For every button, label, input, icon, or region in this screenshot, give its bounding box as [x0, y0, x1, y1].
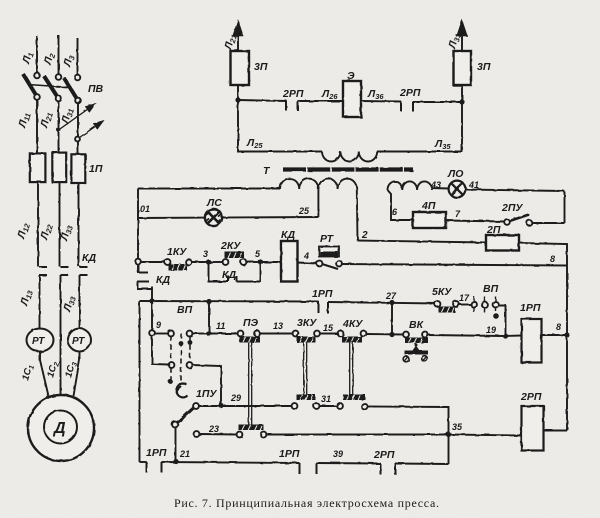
svg-text:4КУ: 4КУ: [342, 318, 363, 330]
svg-text:1П: 1П: [89, 163, 103, 175]
pushbutton ПЭ upper pole: [238, 331, 260, 343]
switch ПВ terminal circle phase 2: [56, 74, 62, 80]
fuse 3П right: [454, 51, 472, 85]
lamp ЛС: [205, 209, 222, 226]
junction dot node 35: [446, 432, 451, 437]
svg-text:2ПУ: 2ПУ: [501, 202, 523, 214]
wire row 3 middle: [328, 302, 437, 304]
wire 2 row to fuse 2П: [358, 241, 487, 243]
switch ПВ terminal circle phase 3: [75, 75, 81, 81]
transformer T core: [283, 167, 413, 171]
motor Д outer circle: [28, 395, 94, 461]
fuse 1П phase 2: [52, 153, 66, 183]
branch tap circle on Л31: [75, 137, 80, 142]
svg-text:3КУ: 3КУ: [297, 317, 317, 329]
wire 4КУ to ВК: [366, 333, 404, 336]
wire Л32: [78, 183, 80, 267]
svg-text:1КУ: 1КУ: [167, 246, 187, 258]
svg-text:КД: КД: [281, 229, 295, 241]
svg-text:КД: КД: [222, 269, 236, 281]
wire Л26: [298, 100, 343, 102]
svg-text:1ПУ: 1ПУ: [196, 388, 217, 400]
switch ПВ terminal circle phase 1: [34, 73, 40, 79]
wire row 8 bottom: [140, 461, 147, 463]
contactor auxiliary contact КД in left bus (jog): [137, 264, 152, 289]
wire 1С3: [74, 352, 80, 397]
svg-text:Рис. 7. Принципиальная электро: Рис. 7. Принципиальная электросхема прес…: [174, 496, 440, 510]
switch ВП pedal actuator symbol: [176, 383, 187, 397]
relay coil 1РП: [522, 319, 542, 363]
wire 2ПУ to right edge: [532, 222, 565, 224]
svg-text:1РП: 1РП: [146, 447, 167, 459]
junction dot node 27: [389, 300, 394, 305]
pushbutton 4КУ upper pole: [338, 331, 367, 343]
plug contact 17: [471, 297, 477, 313]
wire КД coil to РТ contact: [298, 263, 318, 264]
svg-text:2: 2: [361, 230, 368, 241]
junction dot bus 8: [564, 332, 569, 337]
svg-text:2КУ: 2КУ: [220, 240, 241, 252]
svg-text:1РП: 1РП: [279, 448, 300, 460]
svg-text:4: 4: [303, 251, 309, 261]
svg-text:КД: КД: [156, 274, 170, 286]
transformer T primary winding: [322, 152, 377, 162]
svg-text:КД: КД: [82, 252, 96, 264]
contactor КД main contact phase 2: [61, 267, 69, 275]
wire row 7: [199, 433, 237, 436]
svg-text:Э: Э: [347, 70, 355, 82]
contactor coil КД: [281, 241, 298, 282]
wire to right 3П: [413, 101, 462, 103]
wire ПЭ to 3КУ: [260, 333, 294, 335]
wire row 3 corner down to node 19: [498, 306, 506, 337]
svg-text:23: 23: [208, 424, 219, 434]
svg-text:35: 35: [452, 422, 463, 432]
wire 1ПУ to node 21: [175, 427, 177, 462]
wire below left 3П: [237, 85, 239, 100]
svg-text:39: 39: [333, 449, 343, 459]
wire Л13: [39, 275, 41, 329]
svg-text:РТ: РТ: [72, 336, 85, 347]
svg-text:13: 13: [273, 321, 283, 331]
svg-text:11: 11: [216, 321, 225, 331]
wire 1С1: [40, 352, 49, 397]
wire jog to row 3: [151, 287, 153, 302]
fuse 2П: [486, 235, 519, 251]
svg-text:РТ: РТ: [32, 336, 45, 347]
svg-text:ПЭ: ПЭ: [243, 317, 259, 329]
svg-text:4П: 4П: [421, 200, 436, 212]
wire 2 tap drop: [356, 189, 359, 241]
switch 2ПУ right terminal: [527, 220, 533, 226]
relay coil 2РП: [522, 406, 544, 451]
wire row 6 right corner down to node 35: [367, 407, 449, 433]
junction dot row 6 at x221: [218, 403, 223, 408]
fuse 3П left: [231, 51, 250, 85]
wire Л21 arrow up: [237, 22, 239, 51]
wire Л25 drop: [238, 100, 322, 152]
switch ПВ blade phase 2: [44, 76, 58, 97]
svg-text:2РП: 2РП: [520, 391, 542, 403]
wire Л33: [79, 275, 81, 329]
wire node 27 vertical: [391, 303, 393, 335]
junction dot node 19: [503, 333, 508, 338]
svg-text:1РП: 1РП: [312, 288, 333, 300]
branch tap dot on Л21: [57, 128, 61, 132]
svg-text:3: 3: [203, 249, 208, 259]
svg-text:19: 19: [486, 325, 496, 335]
svg-text:21: 21: [179, 449, 190, 459]
wire ВК to node 19: [428, 335, 504, 336]
wire row 6 (29-31 row): [199, 405, 293, 407]
svg-text:2РП: 2РП: [373, 449, 395, 461]
pushbutton 5КУ: [435, 301, 459, 312]
transformer lighting secondary winding: [388, 181, 432, 190]
svg-text:1РП: 1РП: [520, 302, 541, 314]
switch 1ПУ top terminal: [193, 403, 199, 409]
wire 01 bus crossing to node 9: [151, 301, 153, 331]
wire Э row left: [238, 100, 286, 101]
svg-text:31: 31: [321, 394, 331, 404]
switch 1ПУ bottom terminal: [172, 422, 178, 428]
junction dot node 11: [206, 331, 211, 336]
wire 43: [431, 187, 449, 190]
wire node 19 to 1РП coil: [506, 335, 522, 338]
wire row 7 (23 row) left terminal: [194, 431, 200, 437]
svg-text:25: 25: [298, 206, 310, 216]
wire 41: [465, 190, 564, 192]
wire Л23: [60, 275, 62, 395]
wire 1РП coil to bus 8: [542, 334, 568, 336]
svg-text:2РП: 2РП: [282, 88, 304, 100]
svg-text:15: 15: [323, 323, 334, 333]
wire row 2 to 1КУ: [141, 261, 166, 263]
svg-text:Д: Д: [52, 420, 66, 437]
svg-text:2РП: 2РП: [399, 87, 421, 99]
wire 3КУ to 4КУ: [320, 333, 339, 335]
switch 1ПУ blade: [177, 408, 195, 424]
wire left bus row3-row8 vertical: [139, 301, 141, 462]
limit switch ВК: [403, 332, 428, 362]
wire node 35 down to row 8: [448, 435, 450, 465]
wire Л36: [361, 100, 401, 103]
wire node 35 to 2РП coil: [449, 435, 522, 436]
solenoid coil Э: [343, 81, 361, 117]
wire phase line Л2 top: [58, 35, 60, 74]
relay contact 2РП left (break): [286, 100, 298, 111]
wire below right 3П: [461, 85, 463, 102]
wire node 7: [446, 221, 505, 222]
wire row 3: [140, 300, 319, 303]
wire 01 top (secondary left end to left bus): [138, 188, 280, 190]
wire 31 segment: [319, 405, 338, 407]
svg-text:41: 41: [468, 180, 479, 190]
wire row 3 to node 11 vertical: [208, 302, 210, 334]
fuse 4П: [413, 212, 446, 228]
svg-text:ВК: ВК: [409, 319, 425, 331]
pushbutton 4КУ lower pole: [337, 395, 367, 410]
wire ВП right pole to node 11: [192, 333, 207, 335]
switch ПВ blade phase 3: [64, 78, 77, 99]
wire Л11: [36, 100, 38, 154]
wire Л21: [58, 101, 60, 153]
node 9 circle: [149, 330, 155, 336]
wire Л12: [37, 182, 39, 267]
wire 5КУ to 17: [459, 304, 472, 306]
relay contact 1РП row 8 middle: [300, 463, 317, 474]
junction dot node 3: [206, 259, 211, 264]
switch ПВ hinge circle phase 1: [34, 94, 40, 100]
motor Д inner circle: [44, 411, 77, 444]
relay contact 2РП right (break): [401, 102, 413, 112]
relay contact 1РП on row 3: [319, 302, 329, 314]
switch ВП pole contacts: [168, 331, 192, 384]
wire node 9 to ВП: [155, 333, 169, 335]
junction dot row 3 at node 11 branch: [206, 299, 211, 304]
wire node 5 to КД coil: [261, 261, 282, 263]
wire lamp loop right vertical: [564, 192, 566, 224]
wire phase line Л3 top: [77, 38, 79, 74]
thermal relay РТ contact: [317, 247, 342, 270]
svg-text:ВП: ВП: [483, 283, 499, 295]
wire row 8 segment 39: [317, 462, 381, 465]
svg-text:17: 17: [459, 293, 470, 303]
switch ПВ hinge circle phase 2: [56, 96, 62, 102]
pushbutton ПЭ lower pole: [237, 425, 267, 438]
svg-text:ЛО: ЛО: [447, 168, 463, 180]
pushbutton ПЭ mechanical link: [249, 343, 252, 425]
junction dot row 3 at x152: [149, 298, 154, 303]
svg-text:01: 01: [140, 204, 150, 214]
plug contacts ВП: [482, 297, 499, 319]
pushbutton 4КУ mechanical link: [350, 343, 353, 395]
switch ПВ link bar: [28, 85, 72, 88]
junction dot node 5: [258, 259, 263, 264]
node circle row 2 start: [135, 259, 141, 265]
svg-text:8: 8: [556, 322, 561, 332]
wire tap 25 vertical: [317, 186, 319, 217]
wire Л31 arrow up: [461, 22, 463, 51]
svg-text:5КУ: 5КУ: [432, 286, 452, 298]
svg-text:2П: 2П: [486, 224, 501, 236]
svg-text:РТ: РТ: [320, 233, 335, 245]
svg-text:ВП: ВП: [177, 304, 193, 316]
wire 2П to node 8 corner: [519, 243, 567, 431]
pushbutton 3КУ mechanical link: [304, 343, 307, 395]
branch arrow from Л21: [59, 104, 96, 130]
svg-text:3П: 3П: [254, 61, 268, 73]
lamp ЛО: [449, 181, 466, 198]
fuse 1П phase 3: [71, 154, 85, 183]
svg-text:8: 8: [550, 254, 555, 264]
switch ПВ hinge circle phase 3: [75, 98, 81, 104]
relay contact 1РП row 8 left: [147, 462, 162, 473]
contactor КД main contact phase 1: [39, 267, 47, 275]
wire Л22: [59, 182, 61, 267]
wire phase line Л1 top: [36, 36, 38, 73]
wire row 1 (lamp ЛС row): [138, 217, 318, 218]
wire Л31: [77, 103, 79, 154]
junction dot node below 3П right: [459, 99, 464, 104]
wire row 7 to node 35: [266, 434, 446, 436]
wire node 6 drop: [388, 190, 414, 220]
svg-text:27: 27: [385, 291, 397, 301]
wire node 11 to ПЭ: [209, 333, 238, 335]
pushbutton 3КУ upper pole: [293, 331, 320, 343]
junction dot node below 3П left: [235, 97, 240, 102]
svg-text:43: 43: [430, 180, 441, 190]
junction dot node 21: [173, 459, 178, 464]
thermal relay РТ heater phase 1: [27, 329, 54, 352]
svg-text:ЛС: ЛС: [206, 197, 222, 209]
junction dot node 27 lower: [389, 332, 394, 337]
switch ПВ blade phase 1: [23, 74, 36, 95]
wire ВП lower pole to 1ПУ corner: [192, 365, 221, 404]
pushbutton 1КУ stop button: [165, 259, 192, 270]
wire 2КУ to node 5: [246, 261, 261, 263]
wire row 2 right to bus 8: [342, 264, 568, 266]
svg-text:29: 29: [230, 393, 241, 403]
wire row 8 segment 21: [162, 462, 300, 463]
contactor КД main contact phase 3: [80, 267, 88, 275]
wire row 8 right to node 35 riser: [395, 463, 449, 466]
wire bus 8 into 2РП coil: [544, 430, 568, 432]
relay contact 2РП row 8: [381, 464, 396, 475]
svg-text:ПВ: ПВ: [88, 83, 104, 95]
pushbutton 3КУ lower pole: [292, 395, 320, 409]
switch 2ПУ blade: [510, 215, 530, 222]
svg-text:3П: 3П: [477, 61, 491, 73]
fuse 1П phase 1: [30, 153, 46, 182]
wire node 3 to 2КУ: [209, 261, 224, 263]
thermal relay РТ heater phase 3: [68, 329, 91, 352]
wire node 9 branch down to ВП lower pole: [152, 336, 169, 365]
switch 2ПУ left terminal: [504, 219, 510, 225]
wire left bus 01 vertical: [137, 189, 139, 273]
contactor self-holding contact КД branch: [209, 262, 261, 282]
wire 1КУ to node 3: [191, 261, 209, 263]
wire Л35 drop: [377, 102, 462, 152]
transformer control secondary winding: [280, 179, 357, 189]
svg-text:9: 9: [156, 320, 161, 330]
branch arrow from Л31: [80, 121, 104, 138]
pushbutton 2КУ start button: [223, 252, 247, 265]
